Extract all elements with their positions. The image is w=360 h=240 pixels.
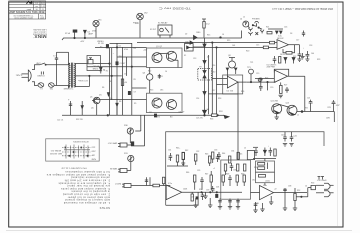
svg-text:R46: R46 (186, 172, 189, 174)
vertical from op-amp C down into big box (237, 82, 239, 88)
wires from top (140, 115, 142, 131)
svg-text:R43: R43 (205, 154, 208, 156)
svg-text:Q5: Q5 (90, 97, 92, 99)
svg-text:D6: D6 (110, 98, 112, 100)
svg-text:C1: C1 (53, 54, 55, 56)
svg-text:4700: 4700 (124, 49, 128, 51)
parts above U3 (274, 56, 276, 59)
svg-text:2-1: 2-1 (35, 3, 38, 5)
svg-text:1. all dc voltages are measure: 1. all dc voltages are measured (63, 201, 110, 204)
ground pair far right-center (255, 202, 257, 210)
svg-text:K1 RLY: K1 RLY (150, 29, 157, 31)
svg-text:K1: K1 (184, 55, 186, 57)
svg-text:3. speaker output and input ja: 3. speaker output and input jacks (60, 187, 110, 190)
svg-text:C40: C40 (281, 135, 284, 137)
svg-text:C11: C11 (160, 76, 163, 78)
transformer T1 (69, 63, 76, 88)
svg-text:C39: C39 (206, 190, 209, 192)
rail E (122, 47, 124, 115)
svg-text:70-5292 rev C: 70-5292 rev C (158, 7, 191, 10)
svg-text:4. all capacitors are in micro: 4. all capacitors are in microfarads (58, 181, 110, 184)
svg-text:SPKR OUT: SPKR OUT (316, 178, 327, 180)
svg-text:R29: R29 (328, 107, 331, 109)
svg-text:D8 D9: D8 D9 (280, 54, 285, 56)
box K2 (185, 44, 194, 52)
svg-text:10: 10 (305, 186, 307, 188)
svg-text:C16: C16 (284, 27, 287, 29)
svg-text:20W PWR: 20W PWR (267, 67, 276, 69)
svg-text:C14: C14 (196, 98, 199, 100)
fuse stub on bus (74, 32, 76, 38)
svg-text:T1 POWER: T1 POWER (63, 87, 74, 89)
output (289, 44, 300, 46)
bottom bus y=114.3 (62, 114, 212, 116)
svg-text:R53: R53 (311, 183, 314, 185)
svg-text:unless otherwise indicated: unless otherwise indicated (71, 176, 110, 179)
svg-text:C22 .01: C22 .01 (57, 120, 63, 122)
svg-text:C13: C13 (193, 58, 196, 60)
input wire into U3 (255, 78, 274, 80)
inner box (feedback) (221, 160, 251, 199)
grounds (283, 207, 287, 209)
svg-text:OPTION 115/230V: OPTION 115/230V (72, 140, 88, 142)
sec bottom (74, 86, 89, 88)
lamp DS1 (93, 20, 99, 26)
cap blob right low (128, 91, 130, 94)
svg-text:5.01: 5.01 (41, 3, 45, 5)
svg-text:J2: J2 (243, 17, 245, 19)
svg-text:C19: C19 (256, 73, 259, 75)
horizontal y=43.5 (110, 43, 132, 45)
svg-text:R4: R4 (134, 48, 136, 50)
feedback U loop under op-amp A (166, 192, 198, 205)
svg-text:AMP SCHEM 5.01 7320-401B: AMP SCHEM 5.01 7320-401B (9, 10, 44, 14)
svg-text:TAPE OUT: TAPE OUT (107, 142, 118, 145)
svg-text:R18: R18 (218, 98, 221, 100)
svg-text:R52: R52 (297, 190, 300, 192)
svg-text:J5: J5 (244, 148, 246, 150)
switch S1 (40, 63, 45, 65)
label smudge layer (57, 13, 320, 122)
svg-text:10W: 10W (326, 118, 330, 120)
op-amp B (260, 186, 274, 200)
svg-text:J6: J6 (222, 34, 224, 36)
diode on rail A (107, 93, 109, 96)
svg-text:P/N 70-5292 REV C 22.1.92: P/N 70-5292 REV C 22.1.92 (61, 167, 87, 169)
diode on bus (194, 35, 197, 39)
svg-text:TAPE IN: TAPE IN (109, 167, 117, 170)
svg-text:PHONES: PHONES (252, 19, 260, 21)
svg-text:D2: D2 (185, 34, 187, 36)
svg-text:TP1: TP1 (250, 62, 253, 64)
svg-text:2. one side of the circuit gro: 2. one side of the circuit ground (62, 193, 110, 196)
svg-text:rev: rev (35, 5, 38, 8)
svg-text:D3: D3 (290, 33, 292, 35)
cap next to it (158, 74, 160, 79)
main vertical x=204.5 (204, 38, 206, 115)
svg-text:6. output power and all output: 6. output power and all output voltages … (46, 173, 110, 176)
svg-text:R48: R48 (226, 174, 229, 176)
AC plug P1 (22, 70, 32, 81)
diode at x=117 (116, 103, 118, 106)
component 2C2 above bus (203, 19, 205, 22)
svg-text:R49: R49 (241, 174, 244, 176)
svg-text:10: 10 (165, 71, 167, 73)
svg-text:MODEL 210: MODEL 210 (51, 149, 61, 151)
svg-text:C21: C21 (307, 98, 310, 100)
relay K1 box (158, 25, 172, 35)
svg-text:R26: R26 (241, 91, 244, 93)
contents of right feedback boxes (258, 163, 265, 166)
svg-text:R32 220: R32 220 (76, 119, 83, 121)
svg-text:100: 100 (311, 53, 314, 55)
svg-text:R24: R24 (219, 111, 222, 113)
jack 3 (input) (124, 184, 131, 188)
stubs to op-amp C inputs (212, 78, 222, 80)
transistor Q5 small (93, 97, 100, 104)
svg-text:F1: F1 (40, 87, 42, 89)
columns right of op-amp A output (191, 194, 193, 201)
op-amp C (227, 76, 238, 88)
svg-text:R12: R12 (148, 71, 151, 73)
rail B (111, 48, 113, 100)
caps right of U1 (299, 51, 301, 54)
parts above right box (255, 148, 257, 151)
svg-text:C35: C35 (197, 170, 200, 172)
triangle U1 (277, 40, 289, 50)
svg-text:C31: C31 (168, 150, 171, 152)
svg-text:*: * (33, 38, 34, 40)
svg-text:R41+: R41+ (176, 148, 180, 150)
jack 1 (120, 143, 127, 147)
svg-text:1-800-553-4355: 1-800-553-4355 (33, 28, 46, 30)
svg-text:+: + (268, 146, 269, 148)
svg-text:117VAC: 117VAC (15, 73, 22, 76)
input wires (137, 42, 270, 44)
resistor R2 below bus (dark) (106, 45, 108, 48)
svg-text:Q13: Q13 (286, 103, 289, 105)
svg-text:L1: L1 (297, 115, 299, 117)
horizontal rails (95, 46, 147, 48)
svg-text:R8: R8 (119, 101, 121, 103)
svg-text:INPUT: INPUT (114, 182, 121, 184)
svg-text:stereo amplifier model: stereo amplifier model (14, 17, 33, 20)
svg-text:C7: C7 (124, 74, 126, 76)
svg-text:R23: R23 (317, 59, 320, 61)
caps after op-amp B (284, 188, 286, 193)
svg-text:C32: C32 (196, 151, 199, 153)
wire switch to transformer (46, 64, 69, 66)
components row inside box top (182, 152, 184, 159)
fuse F1 (38, 83, 44, 88)
svg-text:C6: C6 (119, 46, 121, 48)
svg-text:+: + (303, 48, 304, 50)
resistor+cap below U3 (280, 85, 283, 93)
dashed diode box (198, 69, 212, 80)
speaker jacks right (stacked) (296, 196, 308, 198)
caps on bottom bus (70, 101, 72, 115)
svg-text:MINX: MINX (34, 33, 47, 39)
svg-text:C38: C38 (288, 186, 291, 188)
svg-text:LINE: LINE (36, 61, 41, 63)
svg-text:(220): (220) (266, 181, 271, 183)
svg-text:C17: C17 (296, 40, 299, 42)
svg-text:R33: R33 (210, 119, 213, 121)
svg-text:F2 5A: F2 5A (65, 32, 71, 35)
svg-text:REG: REG (156, 117, 160, 119)
svg-text:C33: C33 (214, 150, 217, 152)
svg-text:Q1 Q2: Q1 Q2 (156, 46, 163, 48)
svg-text:C36: C36 (233, 170, 236, 172)
rail A (109, 48, 111, 115)
svg-text:are located on the rear panel: are located on the rear panel (67, 184, 110, 187)
zener VR1 (100, 67, 103, 71)
rectifier block outline (87, 56, 101, 71)
svg-text:R19: R19 (227, 40, 230, 42)
svg-text:5W: 5W (106, 46, 109, 48)
svg-text:IC1b: IC1b (263, 185, 267, 187)
svg-text:POWER: POWER (37, 74, 45, 76)
svg-text:DS1: DS1 (98, 20, 102, 22)
wire plug bottom to fuse (32, 82, 38, 86)
svg-text:with amp driven at full power: with amp driven at full power (67, 195, 110, 198)
svg-text:C37: C37 (191, 197, 194, 199)
clusters bottom center (219, 199, 221, 207)
cap C1 across primary (56, 59, 58, 64)
caps hanging from box top edge (284, 132, 286, 137)
svg-text:R16: R16 (212, 65, 215, 67)
svg-text:NE5532: NE5532 (277, 38, 284, 40)
svg-text:D10: D10 (212, 72, 215, 74)
svg-text:C34: C34 (231, 151, 234, 153)
feedback resistor (286, 52, 292, 55)
svg-text:+: + (113, 53, 114, 55)
svg-text:C25 470: C25 470 (196, 118, 203, 120)
svg-text:R13: R13 (150, 90, 153, 92)
small parts columns between (194, 175, 196, 182)
svg-text:Q12 2SB: Q12 2SB (271, 101, 279, 103)
title block (9, 1, 46, 19)
svg-text:R9: R9 (134, 103, 136, 105)
wire fuse to transformer (54, 85, 68, 87)
svg-text:for 8 ohm speaker impedances: for 8 ohm speaker impedances (65, 170, 110, 173)
svg-text:R20: R20 (246, 51, 249, 53)
junction blob on bus (154, 114, 156, 117)
svg-text:R21: R21 (266, 27, 269, 29)
wire op-amp C out to right (246, 81, 275, 83)
svg-text:TB1: TB1 (50, 87, 53, 89)
svg-text:R5: R5 (134, 79, 136, 81)
sec top (75, 63, 88, 65)
svg-text:D7: D7 (207, 57, 209, 59)
transistor circle above (229, 61, 236, 68)
svg-text:+1: +1 (213, 168, 215, 170)
diode block D1 (88, 60, 93, 64)
svg-text:LAMP: LAMP (88, 33, 94, 36)
output wire caps right (301, 111, 303, 113)
svg-text:5. all resistors are 1/4 watt: 5. all resistors are 1/4 watt 5% (64, 179, 110, 182)
svg-text:R25: R25 (265, 78, 268, 80)
junction (220, 37, 222, 39)
svg-text:R45: R45 (239, 154, 242, 156)
resistor on bus right (212, 114, 218, 117)
ground (297, 58, 301, 60)
thermal breaker TB1 (49, 83, 55, 88)
rail D (131, 43, 133, 115)
svg-text:SER. NO2100: SER. NO2100 (50, 152, 62, 154)
svg-text:U2 723: U2 723 (227, 91, 234, 93)
diode on bottom bus (203, 110, 207, 114)
pot 1 (volume) (127, 128, 133, 134)
cap at 259-263 (260, 77, 262, 82)
svg-text:2R2: 2R2 (305, 108, 308, 110)
feedback above U3 (274, 69, 288, 76)
svg-text:with respect to chassis ground: with respect to chassis ground (65, 198, 110, 201)
svg-text:MINX MODEL 210 STEREO AMPL: MINX MODEL 210 STEREO AMPLIFIER — SHEET … (272, 7, 333, 10)
input caps/resistors (146, 177, 148, 185)
svg-text:R15: R15 (207, 35, 210, 37)
svg-text:C15: C15 (256, 45, 259, 47)
diode stub on bus (84, 30, 87, 33)
svg-text:R44: R44 (222, 153, 225, 155)
top-right title text (rotated) (158, 7, 333, 10)
svg-text:C18: C18 (309, 45, 312, 47)
svg-text:C20: C20 (270, 87, 273, 89)
svg-text:R50: R50 (199, 189, 202, 191)
logo MINX (rotated 180) (32, 28, 47, 40)
svg-text:R27: R27 (284, 85, 287, 87)
svg-text:NOTES:: NOTES: (98, 206, 110, 209)
svg-text:1K2: 1K2 (252, 180, 255, 182)
columns above op-amp A (169, 153, 171, 156)
svg-text:BRDG: BRDG (93, 68, 99, 70)
wire plug top to switch (32, 65, 40, 70)
sec center tap (75, 75, 122, 77)
svg-text:R22: R22 (293, 56, 296, 58)
svg-text:R1: R1 (106, 70, 108, 72)
svg-text:R42: R42 (185, 150, 188, 152)
svg-text:117V 60Hz: 117V 60Hz (78, 79, 88, 81)
svg-text:R51: R51 (254, 167, 257, 169)
svg-text:is grounded to the chassis: is grounded to the chassis (71, 190, 110, 193)
module label smudges (168, 148, 314, 199)
svg-text:appd: appd (40, 18, 44, 20)
current source circle (147, 74, 153, 80)
small parts above U1 (267, 32, 272, 34)
svg-text:+50: +50 (124, 82, 127, 84)
svg-text:1N40: 1N40 (196, 32, 200, 34)
svg-text:K1 RELAY: K1 RELAY (158, 22, 168, 25)
test point circle (249, 69, 254, 74)
rail C (116, 43, 118, 115)
extra parts around op-amp A output wire (201, 192, 202, 193)
svg-text:C-12: C-12 (41, 6, 45, 8)
svg-text:Q6 Q7: Q6 Q7 (179, 112, 186, 114)
svg-text:R1 120: R1 120 (98, 43, 104, 45)
svg-text:R47: R47 (205, 174, 208, 176)
top bus wire y=38 (62, 38, 242, 40)
svg-text:C9: C9 (134, 92, 136, 94)
svg-text:R6: R6 (102, 87, 104, 89)
rail F short (126, 57, 128, 76)
pot 2 (128, 155, 134, 161)
op-amp A (166, 185, 182, 200)
svg-text:1K5: 1K5 (160, 90, 163, 92)
grounds inside module (194, 204, 198, 206)
svg-text:C41: C41 (294, 136, 297, 138)
svg-text:.22: .22 (274, 189, 277, 191)
jack 2 (120, 169, 127, 173)
feedback box outline (223, 75, 243, 94)
lamp DS2 (137, 13, 144, 20)
diode chain (203, 44, 206, 47)
svg-text:R17: R17 (212, 90, 215, 92)
svg-text:DS2: DS2 (144, 13, 148, 15)
